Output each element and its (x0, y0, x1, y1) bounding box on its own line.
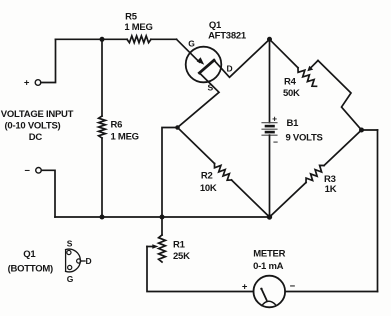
wire R6 bottom lead (101, 138, 103, 217)
R1 wiper arrow (147, 246, 153, 248)
svg-text:0-1 mA: 0-1 mA (253, 261, 284, 272)
svg-text:10K: 10K (200, 183, 217, 194)
node bridge top corner (267, 37, 272, 42)
node bridge left corner (175, 125, 180, 130)
Q1 bottom pin D tab (81, 260, 85, 262)
svg-text:D: D (86, 256, 92, 266)
wire R4 wiper to right corner (318, 61, 362, 131)
wire left corner upper segment of R2 diagonal (178, 128, 215, 164)
svg-text:DC: DC (29, 132, 43, 143)
Q1 bottom view package (65, 250, 67, 272)
wire battery top lead (269, 39, 271, 122)
transistor Q1 (186, 47, 222, 83)
transistor Q1 gate arrowhead (197, 57, 205, 64)
svg-text:+: + (24, 78, 30, 89)
svg-text:−: − (290, 281, 296, 292)
wire top left segment (56, 38, 128, 40)
meter M1 (253, 276, 285, 308)
node R1 top junction (160, 215, 165, 220)
svg-text:(BOTTOM): (BOTTOM) (8, 263, 53, 274)
svg-text:METER: METER (253, 249, 285, 260)
svg-text:R1: R1 (173, 240, 186, 251)
wire R1 wiper to meter (147, 247, 253, 292)
wire R2 to bottom corner (232, 180, 270, 217)
svg-text:Q1: Q1 (209, 20, 222, 31)
svg-text:Q1: Q1 (23, 249, 36, 260)
wire R5 to gate bend (151, 38, 177, 40)
node R6 bottom junction (100, 215, 105, 220)
svg-text:AFT3821: AFT3821 (208, 30, 247, 41)
resistor R1 lead (161, 217, 163, 235)
svg-text:1 MEG: 1 MEG (124, 22, 152, 33)
Q1 bottom pin G (68, 265, 72, 269)
node bridge bottom corner (267, 214, 272, 219)
svg-text:G: G (188, 39, 195, 49)
svg-text:9 VOLTS: 9 VOLTS (286, 133, 323, 144)
svg-text:B1: B1 (287, 118, 300, 129)
wire - terminal down to bottom wire (41, 170, 55, 217)
svg-text:−: − (273, 137, 278, 147)
wire + terminal to top wire (41, 39, 56, 82)
svg-text:R5: R5 (125, 11, 138, 22)
svg-text:1 MEG: 1 MEG (111, 131, 139, 142)
svg-text:50K: 50K (283, 88, 300, 99)
wire gate diagonal (177, 39, 200, 62)
resistor R3 (306, 165, 324, 182)
svg-text:R2: R2 (201, 171, 213, 182)
transistor Q1 source lead (178, 73, 220, 128)
resistor R6 (99, 116, 106, 138)
svg-text:R4: R4 (284, 77, 297, 88)
transistor Q1 drain lead (214, 39, 270, 77)
svg-text:R6: R6 (111, 119, 123, 130)
R4 wiper arrow (310, 61, 318, 69)
wire left corner stub and vertical (162, 128, 178, 218)
resistor R2 (215, 164, 232, 181)
node top junction (100, 37, 105, 42)
wire right vertical (377, 130, 379, 292)
wire meter right lead (285, 291, 377, 293)
svg-text:S: S (208, 82, 214, 92)
Q1 bottom pin S (67, 250, 71, 254)
svg-text:VOLTAGE INPUT: VOLTAGE INPUT (1, 109, 74, 120)
meter scale arc (262, 301, 275, 305)
svg-text:(0-10 VOLTS): (0-10 VOLTS) (5, 121, 61, 132)
resistor R4 (298, 68, 317, 87)
svg-text:1K: 1K (325, 184, 337, 195)
wire bridge top-right diagonal (270, 39, 299, 68)
svg-text:+: + (272, 114, 277, 124)
svg-text:+: + (242, 282, 248, 293)
wire bridge lower-right diagonal upper part (324, 130, 362, 166)
wire battery bottom lead (269, 135, 271, 217)
terminal - input (36, 168, 42, 174)
wire bottom rail (55, 216, 270, 218)
wire R3 to bottom corner (270, 183, 307, 218)
node bridge right corner (359, 128, 364, 133)
wire R6 top lead (101, 39, 103, 116)
svg-text:D: D (227, 64, 233, 74)
battery B1 (262, 123, 277, 136)
svg-text:G: G (67, 274, 74, 284)
resistor R5 (127, 36, 151, 43)
Q1 bottom pin D (77, 259, 81, 263)
meter needle (262, 289, 267, 300)
wire right corner stub (362, 129, 378, 131)
svg-text:−: − (24, 165, 30, 176)
svg-text:S: S (67, 238, 73, 248)
resistor R1 (159, 235, 166, 262)
terminal + input (35, 80, 41, 86)
svg-text:25K: 25K (173, 251, 190, 262)
transistor Q1 channel bar (199, 60, 214, 73)
